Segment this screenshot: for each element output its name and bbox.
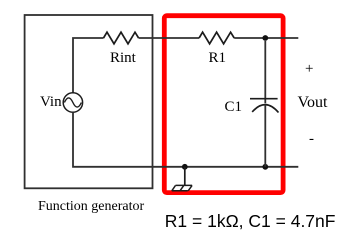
wire: top rail right segment	[234, 37, 298, 39]
wire: source bottom to bottom rail	[73, 112, 298, 167]
ground stub	[184, 167, 186, 185]
label R1	[209, 50, 227, 67]
capacitor C1 bottom plate (arc)	[252, 105, 278, 113]
highlight box (red)	[164, 16, 283, 193]
label values	[165, 211, 336, 232]
label Function generator	[38, 199, 144, 215]
label Vout	[298, 94, 328, 112]
function generator box	[25, 15, 153, 188]
label Rint	[110, 50, 136, 67]
ground symbol	[172, 185, 192, 190]
source V1 (Vin)	[63, 93, 82, 112]
label plus	[305, 61, 313, 78]
node: junction dot top	[262, 35, 268, 41]
wire: C1 bottom lead	[264, 105, 266, 167]
node: junction dot bottom-right	[262, 164, 268, 170]
label C1	[225, 99, 243, 116]
wire: top rail left segment	[73, 38, 104, 93]
resistor Rint	[104, 32, 139, 44]
label minus	[309, 131, 314, 148]
label Vin	[40, 94, 62, 111]
capacitor C1 top plate	[250, 98, 278, 100]
node: junction dot bottom-left (ground node)	[182, 164, 188, 170]
wire: top rail middle segment	[139, 37, 200, 39]
sine wave inside source	[64, 98, 81, 107]
wire: C1 top lead	[264, 41, 266, 103]
resistor R1	[199, 32, 234, 44]
